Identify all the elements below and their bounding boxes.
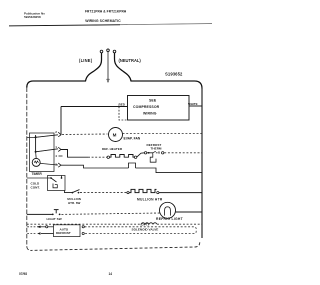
- contact chevron 2: [58, 132, 61, 137]
- publication number block: [24, 12, 45, 20]
- adc box: [54, 225, 81, 237]
- wire evap fan to right bus dashed: [123, 133, 203, 135]
- svg-text:HTR. 6W: HTR. 6W: [68, 201, 81, 205]
- connector therm right: [162, 152, 164, 154]
- switch arm to contact 2: [36, 135, 58, 138]
- mullion switch arm: [72, 190, 79, 193]
- switch arm to contact 1: [36, 149, 58, 152]
- svg-text:TIMER: TIMER: [32, 172, 43, 176]
- wire cold control feed: [27, 177, 51, 179]
- wire bulb to right bus: [176, 211, 203, 213]
- wire right bus: [201, 89, 203, 239]
- svg-text:REFRIG LIGHT: REFRIG LIGHT: [156, 217, 184, 221]
- cold control box: [48, 176, 66, 191]
- svg-text:THERM: THERM: [151, 147, 162, 151]
- wire timer feed stub: [27, 137, 36, 139]
- connector adc upper left: [46, 226, 48, 228]
- ground wire: [107, 52, 109, 80]
- node timer pivot lower: [35, 151, 37, 153]
- wire adc upper left arrow: [37, 226, 41, 228]
- wire pivot to motor: [35, 152, 38, 159]
- mullion heater R2 square wave: [129, 189, 156, 192]
- svg-text:(LINE): (LINE): [79, 58, 93, 63]
- wire heater to therm: [137, 153, 145, 157]
- power plug prong N: [113, 50, 116, 53]
- wire neutral-side curve and top-right bus: [115, 53, 203, 89]
- wire motor to contact 3: [40, 163, 58, 165]
- contact chevron 3: [58, 163, 61, 167]
- node heater/therm junction: [144, 152, 146, 154]
- svg-text:DEF. HEATER: DEF. HEATER: [102, 147, 123, 151]
- bulb filament: [165, 207, 171, 216]
- wire timer terminal 3 run: [61, 165, 129, 168]
- connector adc upper right: [82, 226, 84, 228]
- svg-text:5995328258: 5995328258: [24, 15, 41, 19]
- wire red to compressor: [61, 106, 128, 108]
- wire evap fan row dashed: [62, 133, 108, 136]
- header rule: [9, 25, 120, 26]
- node junction red/aux: [118, 106, 120, 108]
- wire ground run to right bus: [136, 168, 203, 173]
- node timer pivot upper: [35, 136, 37, 138]
- svg-text:FRT21PRH & FRT21KPRH: FRT21PRH & FRT21KPRH: [85, 10, 127, 14]
- ground arrow: [107, 79, 109, 82]
- wire therm to right bus dashed: [164, 152, 202, 154]
- connector mullion left: [127, 192, 129, 194]
- connector bump on ground run: [129, 163, 136, 168]
- wire timer inner riser: [35, 135, 37, 152]
- svg-text:14: 14: [109, 272, 113, 276]
- wire light switch row: [27, 213, 53, 215]
- connector adc lower right: [82, 232, 84, 234]
- connector heater left: [107, 156, 109, 158]
- svg-text:(OPT): (OPT): [141, 223, 149, 227]
- mullion switch contact: [78, 192, 80, 194]
- wire contact1 to heater: [61, 150, 88, 158]
- contact chevron 1: [58, 147, 61, 151]
- solenoid coil L1: [141, 223, 157, 225]
- wire white from compressor: [189, 105, 202, 107]
- power plug prong G: [107, 49, 110, 52]
- connector heater right: [134, 156, 136, 158]
- evap fan motor B1: [109, 128, 123, 142]
- defrost timer box: [30, 133, 55, 172]
- timer motor squiggle: [34, 161, 38, 163]
- node cold control right: [61, 177, 63, 179]
- contact stub 4: [59, 155, 63, 157]
- mullion switch pivot: [72, 192, 74, 194]
- svg-text:WIRING: WIRING: [143, 112, 157, 116]
- svg-text:COMPRESSOR: COMPRESSOR: [133, 105, 160, 109]
- wire solenoid to right dashed: [157, 223, 202, 225]
- light switch S3: [52, 214, 54, 216]
- wire dashed drop to compressor box bottom: [119, 107, 128, 121]
- svg-text:MULLION HTR: MULLION HTR: [137, 198, 163, 202]
- svg-text:07/98: 07/98: [19, 272, 27, 276]
- node cold control left: [50, 177, 52, 179]
- wire adc upper right dashed: [85, 227, 197, 234]
- wire line-side curve and top-left bus: [27, 53, 102, 88]
- cabinet bottom border dashed: [32, 242, 200, 250]
- wire adc lower left arrow: [41, 233, 54, 235]
- svg-text:EVAP. FAN: EVAP. FAN: [124, 136, 141, 140]
- wire mullion row dashed: [80, 192, 127, 194]
- wire mullion to right bus: [159, 192, 202, 194]
- cold control bellows: [53, 184, 57, 188]
- refrigerator light bulb DS1: [160, 202, 176, 218]
- svg-text:LIGHT SW: LIGHT SW: [47, 217, 62, 221]
- compressor box text: [133, 99, 160, 116]
- timer motor M1: [32, 158, 40, 166]
- cold control switch arm: [51, 178, 57, 182]
- defrost thermostat S2: [148, 152, 150, 154]
- wire light row dashed: [62, 213, 161, 214]
- wire adc upper right dashed: [27, 223, 140, 225]
- svg-text:M: M: [113, 133, 117, 138]
- defrost heater R1 square wave: [110, 155, 135, 158]
- wire adc left connector stub: [48, 226, 54, 228]
- svg-text:(NEUTRAL): (NEUTRAL): [119, 58, 142, 63]
- svg-text:WHITE: WHITE: [188, 102, 198, 106]
- svg-text:WIRING SCHEMATIC: WIRING SCHEMATIC: [85, 19, 121, 23]
- svg-text:DEFROST: DEFROST: [56, 231, 71, 235]
- svg-text:S193652: S193652: [165, 72, 183, 77]
- svg-text:SOLENOID VALVE: SOLENOID VALVE: [132, 227, 159, 231]
- power plug prong L: [100, 50, 103, 53]
- wire red drop to timer terminal 2: [60, 107, 62, 136]
- connector mullion right: [157, 192, 159, 194]
- wire left conductor: [27, 88, 32, 251]
- svg-text:SEE: SEE: [149, 99, 157, 103]
- svg-text:CONT.: CONT.: [31, 186, 40, 190]
- compressor box U1: [128, 96, 190, 121]
- wire cold control output: [62, 176, 73, 193]
